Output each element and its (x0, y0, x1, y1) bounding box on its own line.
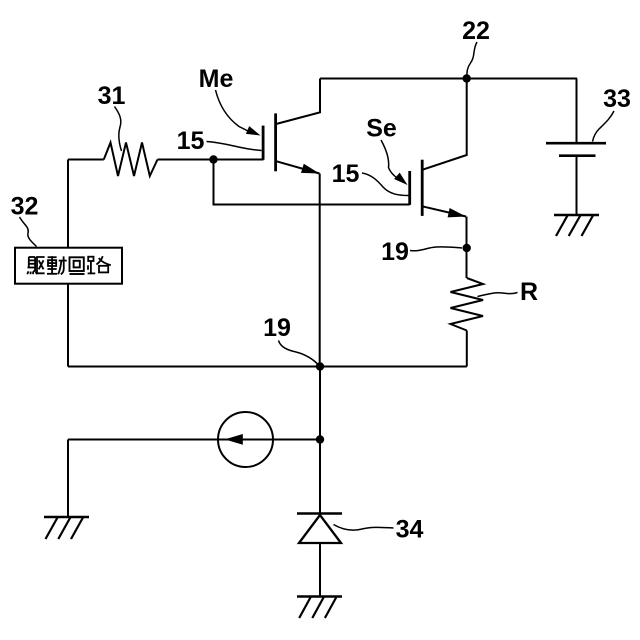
leader Me arrow (246, 126, 261, 135)
wire top rail node22 (320, 78, 577, 80)
svg-text:31: 31 (98, 82, 126, 110)
leader 15 left (207, 142, 262, 151)
leader 31 (115, 107, 122, 152)
diode 34 cathode bar (297, 512, 342, 515)
wire diode to ground (319, 543, 321, 596)
svg-text:15: 15 (332, 160, 360, 188)
node 19 left (316, 362, 324, 370)
svg-text:19: 19 (381, 238, 409, 266)
wire gate left segment (68, 159, 104, 161)
wire gate right segment (158, 159, 264, 161)
transistor Me emitter arrow (301, 164, 320, 174)
leader 33 (593, 111, 615, 142)
wire Me emitter down (319, 174, 321, 367)
wire down to diode (319, 367, 321, 514)
box 32 drive circuit (15, 248, 122, 284)
leader 19 left (279, 341, 320, 367)
svg-text:22: 22 (462, 17, 490, 45)
node 15 (209, 155, 217, 163)
svg-text:Se: Se (366, 115, 397, 143)
node 22 (463, 74, 471, 82)
node at current source rail (316, 435, 324, 443)
wire left rail upper (67, 160, 69, 248)
transistor Me collector (276, 79, 320, 125)
resistor 31 (104, 143, 158, 177)
wire left rail lower (67, 284, 69, 367)
svg-text:15: 15 (177, 127, 205, 155)
svg-text:33: 33 (603, 85, 631, 113)
node 19 right (463, 244, 471, 252)
svg-text:R: R (520, 278, 538, 306)
wire gate branch to Se (214, 160, 410, 205)
leader Se arrow (394, 173, 407, 185)
leader 19 right (410, 247, 462, 251)
leader Se (381, 140, 397, 178)
leader 34 (334, 525, 394, 531)
kanji 路 (88, 256, 111, 273)
wire current source rail (68, 439, 320, 441)
transistor Me emitter (276, 161, 320, 173)
kanji 動 (47, 256, 67, 274)
leader 22 (467, 42, 477, 76)
leader Me (216, 90, 249, 131)
wire ground left lead (67, 440, 69, 518)
transistor Se gate bar (408, 171, 411, 205)
leader R (478, 293, 518, 297)
resistor R (451, 278, 484, 331)
wire bottom rail (68, 366, 467, 368)
transistor Me body bar (274, 113, 277, 171)
transistor Se body bar (421, 160, 424, 216)
svg-text:Me: Me (199, 65, 234, 93)
svg-text:19: 19 (263, 314, 291, 342)
transistor Se emitter arrow (448, 208, 466, 217)
leader 32 (20, 217, 37, 247)
svg-text:32: 32 (11, 193, 39, 221)
transistor Se collector (422, 79, 467, 170)
transistor Se emitter (422, 206, 466, 216)
current source circle (218, 412, 273, 467)
wire capacitor top lead (576, 79, 578, 143)
ground left (44, 517, 89, 539)
kanji 回 (70, 257, 85, 274)
diode 34 triangle (299, 515, 341, 543)
svg-text:34: 34 (396, 516, 424, 544)
wire capacitor bottom lead (576, 157, 578, 215)
capacitor 33 (546, 143, 606, 156)
transistor Me gate bar (262, 126, 265, 160)
ground right (554, 215, 599, 236)
ground middle (297, 597, 342, 619)
wire Se emitter down (466, 217, 468, 279)
leader 15 right (362, 173, 409, 196)
current source arrow (225, 434, 243, 445)
kanji 駆 (27, 257, 44, 274)
wire R bottom (466, 331, 468, 367)
